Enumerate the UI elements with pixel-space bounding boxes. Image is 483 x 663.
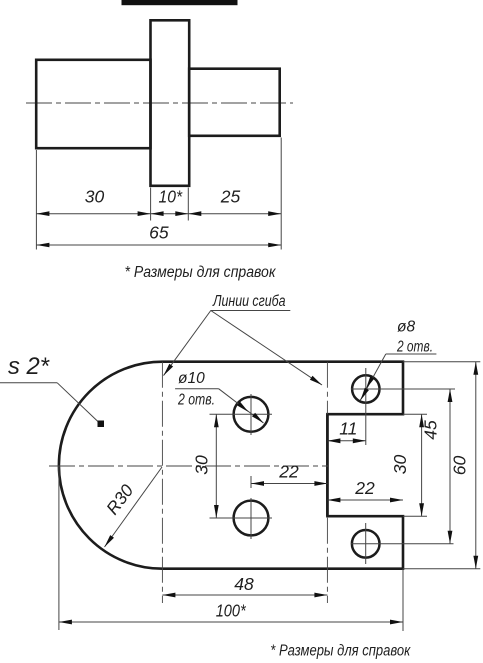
- svg-text:45: 45: [421, 420, 441, 440]
- dim 11: [327, 440, 365, 442]
- svg-text:22: 22: [354, 478, 375, 498]
- dim 22 left: [251, 483, 327, 485]
- hole upper-middle: [234, 397, 269, 432]
- extension lines shaft: [35, 150, 37, 250]
- svg-text:30: 30: [85, 187, 105, 207]
- ext lines right side: [403, 361, 480, 363]
- svg-text:25: 25: [220, 187, 241, 207]
- dim 22 right: [327, 499, 403, 501]
- svg-text:100*: 100*: [216, 601, 247, 621]
- leader to fold line 1: [164, 311, 211, 376]
- title bar (cropped underline): [122, 0, 238, 5]
- crosshair lower-middle hole: [210, 517, 273, 519]
- svg-text:22: 22: [278, 462, 299, 482]
- dim 100*: [59, 621, 403, 623]
- crosshair upper-middle hole: [210, 413, 273, 415]
- dim 30 right (notch): [421, 414, 423, 516]
- dim 60: [475, 362, 477, 569]
- svg-text:60: 60: [450, 456, 470, 476]
- left cylinder: [36, 60, 150, 148]
- notch left edge (on fold line 2): [326, 414, 329, 516]
- svg-text:s 2*: s 2*: [8, 353, 50, 380]
- dim 30 middle (between holes): [215, 414, 217, 518]
- dimension line 65: [36, 244, 281, 246]
- centerline shaft axis: [26, 102, 293, 104]
- svg-text:Линии сгиба: Линии сгиба: [212, 293, 286, 310]
- hole lower-middle: [234, 501, 269, 536]
- ext for 22-left dim: [250, 476, 252, 488]
- svg-text:10*: 10*: [159, 187, 184, 207]
- right cylinder: [189, 69, 280, 136]
- hole top-right: [352, 375, 379, 402]
- svg-text:* Размеры для справок: * Размеры для справок: [125, 264, 277, 281]
- R30 leader: [105, 467, 163, 547]
- svg-text:11: 11: [339, 419, 357, 439]
- svg-text:30: 30: [192, 455, 212, 475]
- flange (middle step): [151, 20, 190, 186]
- hole bottom-right: [352, 530, 380, 558]
- svg-text:2 отв.: 2 отв.: [396, 339, 433, 356]
- plate horizontal centerline: [49, 465, 328, 467]
- dimension line 30 / 10* / 25: [36, 213, 281, 215]
- svg-text:48: 48: [234, 574, 254, 594]
- dim 45: [449, 389, 451, 544]
- svg-text:ø8: ø8: [397, 319, 415, 336]
- svg-text:2 отв.: 2 отв.: [177, 392, 215, 409]
- svg-text:30: 30: [390, 455, 410, 475]
- fold line 1: [161, 362, 163, 603]
- svg-text:ø10: ø10: [178, 370, 205, 387]
- dim 48: [162, 594, 327, 596]
- leader to fold line 2: [211, 311, 322, 386]
- fold line 2: [326, 362, 328, 603]
- svg-text:65: 65: [149, 223, 169, 243]
- crosshair top-right hole: [351, 388, 455, 390]
- crosshair bottom-right hole: [351, 543, 454, 545]
- svg-text:* Размеры для справок: * Размеры для справок: [270, 643, 411, 660]
- plate outline: [59, 362, 403, 569]
- ext lines bottom: [58, 466, 60, 630]
